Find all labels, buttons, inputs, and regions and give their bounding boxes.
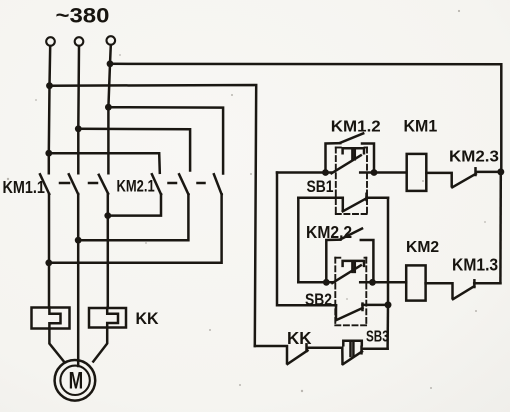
node right bus [497, 168, 504, 175]
wire to right control bus [110, 64, 501, 172]
svg-text:KK: KK [136, 310, 159, 329]
svg-text:KM2.1: KM2.1 [117, 177, 155, 196]
wire phase1 lower [48, 194, 51, 308]
contact KM2.1 pole3 [214, 174, 222, 194]
node phase2-to-KM2.1 pole2 [75, 125, 82, 132]
SB1 mechanical link dashed box [336, 148, 367, 215]
svg-text:KM1: KM1 [404, 117, 438, 135]
wire node C down to stop line [386, 305, 389, 349]
contact KK NC blade [288, 351, 308, 365]
svg-text:SB2: SB2 [305, 291, 332, 310]
wire SB3 to node C riser [362, 347, 388, 350]
wire phase2 to KM2.1 pole2 top [78, 129, 190, 171]
motor M outer circle [55, 360, 96, 401]
node phase3-to-KM2.1 pole3 [105, 104, 112, 111]
node B [371, 169, 378, 176]
contact SB2 NC [335, 305, 338, 319]
mechanical linkage dashes [60, 182, 69, 185]
coil KM2 [406, 265, 425, 300]
svg-text:~380: ~380 [56, 4, 110, 27]
contact SB1 NO blade [332, 155, 361, 173]
stop line from left bus [255, 346, 287, 363]
contact KM2.1 pole1 [152, 174, 161, 194]
SB2 mechanical link dashed box [335, 258, 366, 326]
svg-text:KM1.2: KM1.2 [331, 118, 381, 135]
node C [385, 301, 392, 308]
contact SB2 NO blade [332, 265, 361, 283]
thermal relay KK heater 2 [89, 308, 126, 328]
wire KK to SB3 [308, 348, 343, 364]
control: KM1 branch rail [277, 171, 332, 174]
button SB3 actuator [343, 341, 362, 346]
coil KM1 [407, 154, 427, 191]
wire phase2 upper [77, 46, 80, 173]
wire KK2 to motor [93, 328, 107, 362]
wire KM2.1 pole2 bottom [78, 194, 188, 240]
node KM2.1 pole2 to phase2 [75, 237, 82, 244]
svg-text:KM1.1: KM1.1 [3, 179, 46, 197]
svg-text:KM2.3: KM2.3 [449, 148, 499, 165]
node phase1-to-left-bus [46, 82, 53, 89]
node KM2.1 pole1 to phase3 [104, 212, 111, 219]
wire phase3 upper [108, 45, 110, 173]
thermal relay KK heater 1 [32, 308, 70, 329]
node KM2.1 pole3 to phase1 [45, 259, 52, 266]
wire KK1 to motor [49, 329, 64, 362]
contact KM1.2 self-hold loop [326, 143, 341, 172]
contact SB3 NC blade [343, 352, 362, 365]
node phase3-to-right-bus [107, 60, 114, 67]
wire phase1 upper [49, 46, 50, 173]
svg-text:M: M [69, 368, 84, 394]
node B2 [369, 279, 376, 286]
wire KM1-rail left down to SB2-NC [277, 173, 336, 306]
node phase1-to-KM2.1 pole1 [45, 150, 52, 157]
svg-text:SB3: SB3 [366, 327, 389, 345]
control: KM2 branch rail [298, 281, 332, 284]
wire rail to KM2 coil [360, 281, 406, 284]
wire KM2.1 pole3 bottom [49, 194, 222, 262]
contact KM2.2 self-hold loop [326, 240, 340, 283]
node A2 [323, 279, 330, 286]
wire phase3 to KM2.1 pole3 top [108, 107, 223, 173]
right bus lower [499, 172, 502, 283]
svg-text:KK: KK [287, 327, 312, 347]
wire phase2 lower (to motor) [77, 194, 80, 366]
contact KM1.1 pole2 [69, 174, 78, 194]
wire KM2.1 pole1 bottom [108, 194, 161, 215]
button SB1 actuator [343, 148, 364, 153]
wire SB1-NC right down to node C [387, 198, 390, 305]
wire SB1-NC to KM2 rail [297, 198, 300, 282]
contact KM1.1 pole3 [99, 175, 108, 194]
terminal L1 [46, 37, 55, 46]
terminal L3 [107, 36, 116, 45]
wire phase3 lower [107, 194, 110, 308]
svg-text:SB1: SB1 [307, 178, 334, 197]
button SB2 actuator [343, 261, 364, 266]
contact KM2.1 pole2 [179, 174, 188, 194]
svg-text:KM2: KM2 [406, 239, 439, 256]
motor M inner circle [60, 366, 89, 395]
contact KM1.3 NC [426, 283, 453, 298]
contact SB1 NC [298, 198, 343, 211]
terminal L2 [75, 37, 84, 46]
wire to left control bus [50, 85, 257, 346]
contact KM1.1 pole1 [40, 174, 49, 194]
svg-text:KM1.3: KM1.3 [452, 256, 498, 275]
node A [322, 169, 329, 176]
contact KM2.3 NC [426, 173, 451, 186]
wire rail to KM1 coil [360, 171, 406, 174]
wire phase1 to KM2.1 pole1 top [49, 153, 160, 173]
